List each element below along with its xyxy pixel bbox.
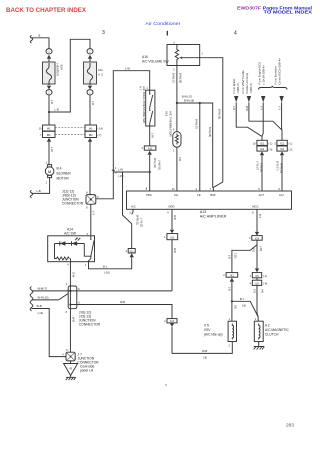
junction connector J7 [66,352,75,361]
svg-text:A/C MAGNETIC: A/C MAGNETIC [265,328,289,332]
svg-text:ACT: ACT [259,193,265,197]
wire from pin2 down [176,66,178,132]
svg-text:(-1): (-1) [269,143,273,146]
wire Y-B to SG [176,147,178,191]
svg-text:(-14): (-14) [98,128,103,131]
svg-text:L-Y: L-Y [92,211,95,215]
wire W-R(-10) [32,294,69,300]
svg-text:W-L(-16): W-L(-16) [153,158,156,168]
svg-text:Control ECU<18B-4>: Control ECU<18B-4> [278,58,282,85]
junction node [149,171,151,173]
svg-text:(-15): (-15) [259,246,262,251]
connector arrow [130,253,134,257]
wire engine ECU down [262,102,263,140]
clutch ground [254,342,265,350]
svg-text:L-Y: L-Y [278,106,281,110]
stray mark [165,384,166,385]
connector IA1 right [85,125,97,131]
wire L-B down [89,95,91,125]
svg-text:<18B-3>: <18B-3> [236,82,240,93]
svg-text:W-B: W-B [173,215,176,220]
wiper arrow [181,57,200,59]
wire left from junction [113,171,149,173]
svg-text:IB2: IB2 [47,134,51,137]
svg-text:L-W(-15): L-W(-15) [157,160,160,170]
svg-text:B-W(-18): B-W(-18) [208,127,211,137]
svg-text:W-R(-11): W-R(-11) [136,215,139,225]
connector pair IG1/IG2 right [277,140,287,145]
wire G-W down to junction block [69,262,71,286]
wire B-Y branch to clutch [232,301,258,321]
wire from IK1 down [231,282,233,322]
svg-text:L-B: L-B [37,189,41,193]
svg-text:IA1: IA1 [89,128,93,131]
wire jog igniter [236,102,261,136]
A16 A/C volume switch box [167,45,200,66]
svg-text:B-W(-17): B-W(-17) [182,96,192,99]
junction node [176,102,178,104]
svg-text:B-W(-17): B-W(-17) [195,119,198,129]
svg-text:L-W: L-W [151,133,154,138]
svg-text:A. C: A. C [98,73,103,77]
A7 dual pressure switch box [146,90,155,126]
svg-text:W-B: W-B [71,317,74,322]
svg-text:(-1): (-1) [263,275,267,278]
svg-text:BACK TO CHAPTER INDEX: BACK TO CHAPTER INDEX [6,8,86,14]
source arrow From Engine ECU [261,96,265,102]
connector IK1 [226,273,238,278]
svg-text:MGC: MGC [252,205,258,209]
svg-text:W-B: W-B [202,349,207,353]
connector arrow down [255,232,259,236]
connector IB2 right [85,131,97,137]
connector circle 1 (fuse A.C bottom) [87,90,93,95]
wire from IJ6 down [257,285,258,317]
svg-text:HEATER: HEATER [56,64,60,77]
internal wiring [55,244,91,259]
svg-text:V 5: V 5 [204,323,209,327]
battery feed squiggle B [30,36,33,44]
svg-text:ACI: ACI [279,193,284,197]
wire to ACI [281,155,283,191]
svg-text:GRD: GRD [168,205,174,209]
svg-text:BLOWER: BLOWER [57,172,72,176]
harness squiggle [30,287,33,312]
svg-text:PRS: PRS [146,193,152,197]
connector arrow up [230,278,234,282]
fuse HEATER 50A [43,62,56,84]
wire to ACT [261,155,263,191]
connector pair IG1/IG2 left [257,140,267,145]
svg-text:L-Y(-17): L-Y(-17) [256,161,259,170]
wire from junction connector right and up [96,71,150,199]
svg-text:Air Conditioner: Air Conditioner [145,21,181,26]
chassis ground [66,376,76,381]
svg-text:IG2: IG2 [170,236,175,239]
svg-text:B-W(-18): B-W(-18) [184,100,194,103]
source arrow From Igniter [234,96,238,102]
svg-text:IG1: IG1 [280,142,285,145]
connector IA1 left [43,125,56,131]
wire to junction [149,155,151,191]
svg-text:L-B: L-B [228,287,231,291]
diode 1 [60,241,66,246]
svg-text:(-16): (-16) [104,271,110,275]
wire down to A/C SW [90,204,92,236]
svg-text:IB2: IB2 [89,134,93,137]
switch contacts [150,90,153,126]
svg-text:10A: 10A [98,68,103,72]
svg-text:A/C DUAL PRESSURE SW: A/C DUAL PRESSURE SW [142,86,146,123]
svg-text:W-B: W-B [37,304,42,308]
connector arrow ACT [260,152,264,156]
svg-text:L-B: L-B [228,255,231,259]
svg-text:W-B(-7): W-B(-7) [38,287,47,291]
svg-text:A/C VOLUME SW: A/C VOLUME SW [142,59,169,63]
svg-text:(-4): (-4) [263,283,267,286]
wire W-B from block to VSV chain [70,305,172,319]
svg-text:(-7): (-7) [98,134,102,137]
svg-text:B-Y: B-Y [258,214,261,219]
wire W-B(-7) ground bus [32,290,173,292]
svg-text:A16: A16 [142,55,148,59]
svg-text:B/W: B/W [210,193,216,197]
connector arrow ACI [280,152,284,156]
connector IB2 left [43,131,56,137]
svg-text:G-W: G-W [71,272,74,278]
svg-text:L-B: L-B [55,108,59,112]
svg-text:L-W: L-W [125,66,130,70]
svg-text:(-6): (-6) [242,304,246,308]
svg-text:A11: A11 [148,148,153,151]
connector on W-B chain [167,319,177,323]
tall junction connector J16/J15 [68,286,77,309]
connector arrow [170,323,174,327]
svg-text:Y-B: Y-B [178,157,181,161]
svg-text:IG2: IG2 [280,148,285,151]
V5 VSV idle-up valve [228,321,236,341]
svg-text:B-W: B-W [245,106,248,112]
svg-text:SG: SG [174,193,178,197]
svg-text:A 2: A 2 [265,323,270,327]
wire down to junction connector [89,142,91,195]
svg-text:50A: 50A [60,65,64,71]
svg-text:L-W: L-W [118,168,123,172]
svg-text:L-W: L-W [50,147,53,152]
VSV ground wire W-B [172,342,232,354]
wire branch down to A/C switch circuit [123,172,132,249]
source arrow From Emission Control [279,96,283,102]
GRD wire down [171,209,173,229]
connector circle 2 (fuse HTR top) [46,49,52,54]
connector arrow down [170,230,174,234]
A14 A/C switch box [48,236,95,262]
junction connector J12 box [86,195,96,205]
svg-text:L-B: L-B [50,100,53,104]
wire [48,59,50,62]
connector arrow below IB2 right [88,138,92,142]
wire B-L to A/C SW [89,257,132,269]
svg-text:(-1)<3A-18B-4>: (-1)<3A-18B-4> [262,65,266,85]
svg-text:A 7: A 7 [138,86,142,91]
svg-text:4: 4 [234,31,237,37]
svg-text:TO MODEL INDEX: TO MODEL INDEX [264,9,313,14]
blower motor B-4 [48,165,52,167]
wire TE down [199,103,201,191]
svg-text:L-B(-18): L-B(-18) [259,163,262,172]
connector circle 2 (fuse A.C top) [87,49,93,54]
resistor [57,257,70,260]
svg-text:(-15): (-15) [233,253,236,258]
svg-text:Y-G: Y-G [253,289,256,293]
wire emission down [281,102,283,140]
junction node B-Y [231,300,233,302]
potentiometer [175,45,178,66]
connector A11 [144,146,156,150]
wire branch to fuse A.C [49,39,90,112]
svg-text:panel LH: panel LH [80,369,94,373]
connector IJ5 [252,273,261,278]
A13 A/C amplifier box [127,191,292,209]
svg-text:(-2): (-2) [289,148,293,151]
connector box on B-L path [128,249,135,254]
svg-text:TE: TE [197,193,201,197]
connector arrow [88,55,92,59]
connector arrow [148,151,152,155]
svg-text:L-Y(-12): L-Y(-12) [140,218,143,227]
svg-text:IG2: IG2 [260,148,265,151]
wire B-W branch right [177,103,213,188]
svg-text:B-L: B-L [103,264,108,268]
svg-text:MOTOR: MOTOR [57,177,70,181]
wire [32,38,50,49]
svg-text:<18B-3>: <18B-3> [249,82,253,93]
A15 thermistor [173,132,181,148]
svg-text:CONNECTOR: CONNECTOR [62,202,84,206]
svg-text:A/C SW: A/C SW [64,232,77,236]
svg-text:M: M [48,169,51,174]
svg-text:CONNECTOR: CONNECTOR [79,323,101,327]
svg-text:W-B: W-B [120,300,125,304]
svg-text:IA1: IA1 [47,128,51,131]
svg-text:W-R(-10): W-R(-10) [38,296,49,300]
blower ground wire L-B [32,178,50,194]
svg-text:B: B [39,34,41,38]
svg-text:B-W(-17): B-W(-17) [172,73,175,83]
wire split [232,240,257,272]
svg-text:L-B: L-B [232,106,235,110]
svg-text:B-W(-18): B-W(-18) [178,73,181,83]
svg-text:B 4: B 4 [57,167,62,171]
svg-text:B-W(-18): B-W(-18) [218,109,221,119]
wire B-W from pin1 right and down [200,58,223,191]
connector circle 1 (fuse HTR bottom) [46,90,52,95]
wire jog VSV [249,102,282,130]
svg-text:L-B: L-B [91,101,94,105]
svg-text:(-12): (-12) [38,311,44,315]
source arrow From VSV throttle [247,96,251,102]
wire L-B down [48,95,50,125]
svg-text:Y-G: Y-G [252,248,255,252]
svg-text:VSV: VSV [204,328,211,332]
svg-text:(-9): (-9) [269,148,273,151]
connector IJ6 [252,280,261,285]
svg-text:CLUTCH: CLUTCH [265,332,279,336]
wire W-B down to ground bus [171,240,173,291]
svg-text:A15: A15 [164,111,168,117]
connector IG2 [167,234,178,240]
svg-text:IG4: IG4 [255,237,260,240]
svg-text:W-R(-18): W-R(-18) [279,163,282,173]
svg-text:(A/C Idle-up): (A/C Idle-up) [204,332,223,336]
connector arrow down IJ [255,269,259,273]
svg-text:L-Y: L-Y [259,106,262,110]
fuse A.C 10A [84,62,97,84]
wire L-W down [149,126,151,146]
junction node TE [199,102,201,104]
ground triangle [70,361,72,364]
svg-text:(-6): (-6) [233,305,236,309]
A2 magnetic clutch [254,321,263,341]
svg-text:(-6): (-6) [203,356,207,360]
svg-text:IG1: IG1 [130,250,135,253]
A/C pin 5 stub [132,209,133,214]
svg-text:A/C: A/C [131,205,136,209]
svg-text:A/C THERMISTOR: A/C THERMISTOR [168,111,172,137]
svg-text:B-Y: B-Y [240,297,245,301]
svg-text:(-1): (-1) [289,143,293,146]
svg-text:283: 283 [286,422,294,428]
page tick I [166,31,168,36]
svg-text:A/C AMPLIFIER: A/C AMPLIFIER [200,214,227,218]
squiggle end [30,190,33,198]
connector arrow [47,86,51,90]
svg-text:B-Y(-17): B-Y(-17) [276,161,279,171]
svg-text:IK1: IK1 [230,274,234,277]
svg-text:3: 3 [102,30,105,36]
LED arrows [75,238,80,241]
dashed link [55,127,85,129]
LED diode 2 [72,241,78,246]
brace [259,86,288,90]
switch contact [89,236,95,262]
connector arrow [47,55,51,59]
svg-text:IG3: IG3 [170,320,175,323]
wire L-W to blower [48,142,50,165]
svg-text:IG1: IG1 [260,142,265,145]
connector arrow [88,86,92,90]
wire W-B(-12) to J7 [32,309,67,357]
dashed link [55,133,85,135]
svg-text:(-4): (-4) [261,289,264,293]
connector IG4 [252,236,262,241]
svg-text:W-B: W-B [173,248,176,253]
junction node [48,111,50,113]
MGC wire down [256,209,258,232]
svg-text:43: 43 [69,367,72,371]
connector arrow below IB2 left [47,138,51,142]
